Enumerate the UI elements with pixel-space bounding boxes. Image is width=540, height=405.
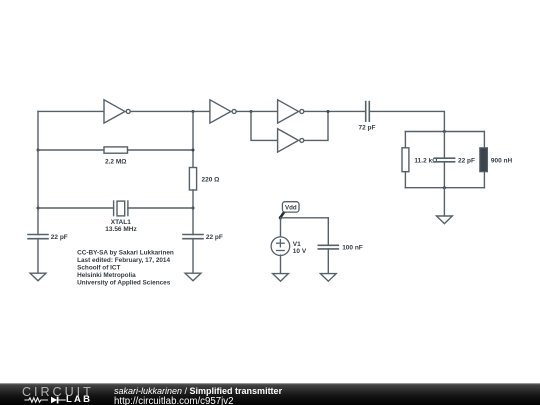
node junction tank top — [443, 130, 446, 133]
wire V1 bottom to ground — [280, 255, 282, 274]
svg-text:22 pF: 22 pF — [51, 234, 68, 241]
svg-text:CC-BY-SA by Sakari Lukkarinen: CC-BY-SA by Sakari Lukkarinen — [77, 249, 174, 256]
wire input to U1 — [38, 110, 104, 112]
resistor R1 2.2 MOhm — [104, 147, 128, 153]
wire feedback row left — [38, 149, 104, 151]
svg-text:900 nH: 900 nH — [491, 157, 513, 164]
node junction right x193 y150 — [192, 149, 195, 152]
node junction right x193 y208 — [192, 207, 195, 210]
wire C4 to tank top — [369, 111, 444, 131]
wire tank bottom rail — [405, 187, 484, 189]
CircuitLab logo — [0, 383, 100, 405]
ground V1 — [273, 274, 289, 282]
wire U2 output to U3 input — [237, 110, 278, 112]
wire crystal row right — [128, 207, 193, 209]
ground C1 — [30, 273, 46, 281]
svg-text:Vdd: Vdd — [285, 204, 297, 211]
svg-text:13.56 MHz: 13.56 MHz — [105, 226, 137, 233]
wire right vertical lower — [192, 190, 194, 235]
node Vdd flag — [279, 202, 299, 220]
svg-text:Last edited: February, 17, 201: Last edited: February, 17, 2014 — [77, 257, 170, 264]
wire tank center upper — [443, 132, 445, 159]
voltage source V1 — [271, 237, 290, 256]
svg-text:220 Ω: 220 Ω — [202, 177, 220, 184]
wire tank top rail — [405, 131, 484, 133]
wire U3 output to C4 — [304, 110, 365, 112]
op-amp U4 inverter — [278, 129, 304, 152]
wire left vertical — [37, 111, 39, 234]
credits text block — [77, 249, 174, 286]
svg-text:V1: V1 — [293, 241, 301, 248]
capacitor C2 22 pF right — [183, 235, 203, 239]
svg-text:22 pF: 22 pF — [458, 157, 475, 164]
wire C1 to ground — [37, 239, 39, 274]
wire U1 output to U2 input — [131, 110, 210, 112]
node junction left x38 y208 — [37, 207, 40, 210]
wire Vdd rail — [281, 217, 329, 219]
wire tank left edge upper — [404, 132, 406, 148]
wire branch down to U4 input — [251, 111, 278, 140]
ground C2 — [185, 273, 201, 281]
wire C3 top — [327, 218, 329, 246]
wire feedback row right — [128, 149, 194, 151]
wire C2 to ground — [192, 239, 194, 274]
wire tank left edge lower — [404, 172, 406, 188]
svg-text:Schoolf of ICT: Schoolf of ICT — [77, 265, 120, 272]
ground C3 — [320, 274, 336, 282]
ground tank — [437, 216, 453, 224]
node junction left x38 y150 — [37, 149, 40, 152]
wire tank right edge lower — [483, 172, 485, 188]
wire tank to ground — [443, 188, 445, 216]
wire tank right edge upper — [483, 132, 485, 148]
resistor R2 11.2 kOhm — [402, 148, 409, 172]
inductor L1 900 nH — [480, 148, 488, 172]
resistor R3 220 Ohm — [189, 168, 196, 191]
wire crystal row left — [38, 207, 114, 209]
svg-text:2.2 MΩ: 2.2 MΩ — [105, 159, 126, 166]
svg-text:10 V: 10 V — [293, 248, 307, 255]
wire V1 top — [280, 218, 282, 238]
node junction tank bottom — [443, 186, 446, 189]
capacitor C3 100 nF — [318, 245, 338, 249]
capacitor C4 72 pF — [366, 102, 370, 122]
node junction at x251 — [250, 110, 253, 113]
capacitor C5 22 pF — [434, 158, 454, 162]
crystal XTAL1 — [114, 201, 128, 216]
wire tank center lower — [443, 162, 445, 188]
op-amp U1 inverter — [104, 100, 130, 123]
op-amp U3 inverter — [278, 100, 304, 123]
wire right vertical upper — [192, 111, 194, 167]
capacitor C1 22 pF left — [28, 235, 48, 239]
node junction at x326.8 — [327, 110, 330, 113]
wire U4 output up to top row — [304, 111, 328, 140]
svg-text:100 nF: 100 nF — [342, 244, 363, 251]
svg-text:Helsinki Metropolia: Helsinki Metropolia — [77, 272, 136, 279]
wire C3 to ground — [327, 249, 329, 274]
footer bar — [0, 383, 540, 405]
node junction at x193 top row — [192, 110, 195, 113]
svg-text:72 pF: 72 pF — [359, 125, 376, 132]
svg-text:22 pF: 22 pF — [206, 234, 223, 241]
op-amp U2 inverter — [210, 100, 236, 123]
svg-text:University of Applied Sciences: University of Applied Sciences — [77, 280, 171, 287]
